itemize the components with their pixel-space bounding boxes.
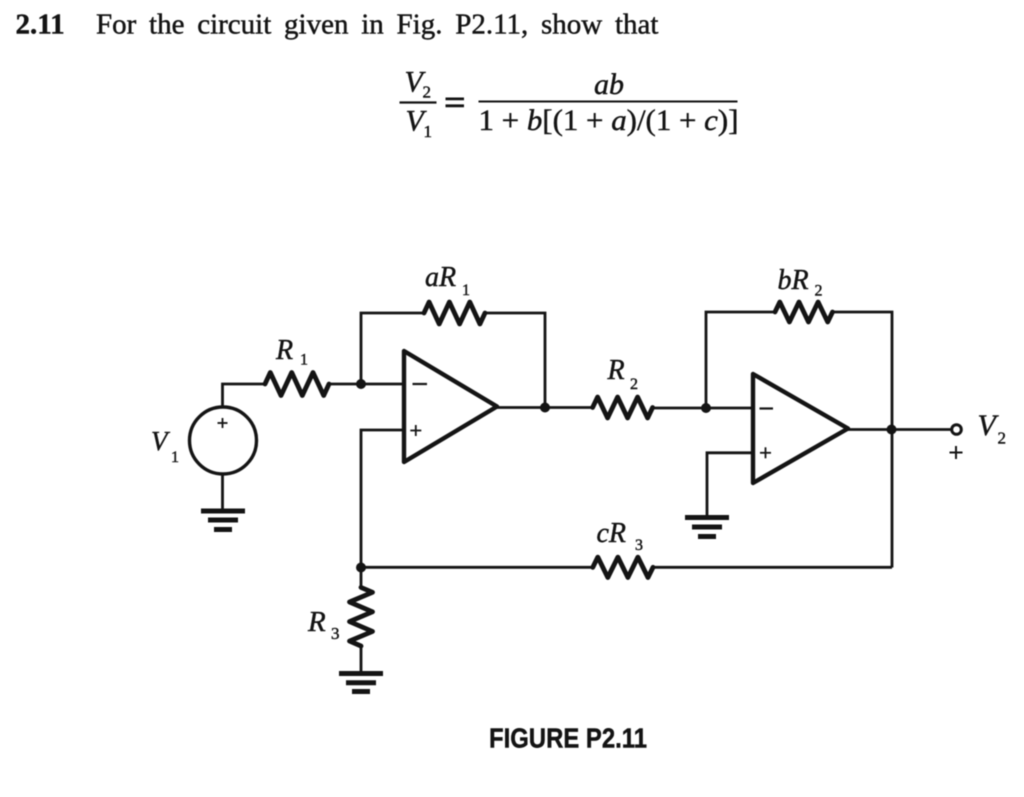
wire U1 output to R2 bbox=[496, 406, 593, 409]
svg-text:ab: ab bbox=[594, 68, 624, 101]
wire feedback 2 up and across bbox=[706, 312, 775, 408]
wire R1 to op-amp 1 inverting input bbox=[329, 383, 404, 386]
problem statement heading bbox=[16, 8, 659, 40]
ground at U2 noninverting input bbox=[685, 518, 729, 537]
label R2 bbox=[607, 355, 639, 393]
wire V1 bottom to ground bbox=[221, 474, 224, 511]
node B (junction of R3, cR3, U1 + input) bbox=[356, 563, 366, 573]
svg-text:For the circuit given in Fig.: For the circuit given in Fig. P2.11, sho… bbox=[96, 8, 658, 40]
wire feedback 1 up and across bbox=[361, 313, 424, 384]
node U1 output bbox=[540, 403, 550, 413]
op-amp U2 bbox=[753, 374, 848, 483]
svg-text:R: R bbox=[275, 335, 293, 366]
wire bottom rail right bbox=[653, 566, 892, 569]
ground under V1 bbox=[201, 511, 245, 530]
resistor aR1 bbox=[424, 302, 485, 324]
svg-text:bR: bR bbox=[778, 265, 809, 296]
op-amp U1 bbox=[404, 351, 497, 462]
svg-text:R: R bbox=[307, 606, 326, 638]
node C (inverting input node of U2) bbox=[701, 403, 711, 413]
wire bR2 down right side to bottom rail bbox=[833, 312, 893, 568]
label V1 bbox=[151, 426, 179, 466]
wire R2 to op-amp 2 inverting input bbox=[653, 407, 753, 410]
wire U1 noninverting input down to node B bbox=[361, 430, 404, 568]
label V2 output bbox=[978, 409, 1007, 448]
wire aR1 down to output node bbox=[485, 313, 545, 408]
equation RHS fraction ab over 1+b[(1+a)/(1+c)] bbox=[479, 68, 739, 137]
svg-text:aR: aR bbox=[425, 262, 456, 293]
svg-text:1: 1 bbox=[171, 449, 179, 466]
resistor R3 bbox=[350, 587, 373, 646]
resistor R1 bbox=[265, 373, 329, 396]
ground under R3 bbox=[339, 674, 383, 692]
svg-text:2: 2 bbox=[423, 83, 432, 102]
svg-text:3: 3 bbox=[635, 537, 643, 554]
wire V1 top to R1 bbox=[223, 384, 266, 408]
label R3 bbox=[307, 606, 340, 643]
resistor cR3 bbox=[593, 557, 653, 577]
resistor bR2 bbox=[775, 302, 833, 322]
svg-text:1 + b[(1 + a)/(1 + c)]: 1 + b[(1 + a)/(1 + c)] bbox=[479, 104, 739, 137]
output terminal circle bbox=[952, 425, 962, 435]
svg-text:2.11: 2.11 bbox=[16, 8, 65, 40]
wire U2 noninverting input to ground bbox=[707, 453, 753, 517]
wire U2 output to terminal bbox=[847, 428, 951, 431]
equals sign bbox=[446, 99, 465, 106]
wire bottom rail left bbox=[361, 566, 593, 569]
svg-text:2: 2 bbox=[815, 283, 823, 300]
label cR3 bbox=[597, 518, 644, 554]
svg-text:3: 3 bbox=[331, 624, 340, 643]
svg-text:R: R bbox=[607, 355, 625, 386]
node A (inverting input node of U1) bbox=[356, 379, 366, 389]
plus sign under terminal bbox=[950, 446, 963, 459]
equation LHS fraction V2/V1 bbox=[400, 66, 437, 142]
label aR1 bbox=[425, 262, 470, 299]
resistor R2 bbox=[593, 397, 653, 418]
svg-text:1: 1 bbox=[300, 352, 308, 369]
label R1 bbox=[275, 335, 308, 369]
svg-text:1: 1 bbox=[462, 282, 470, 299]
svg-text:2: 2 bbox=[998, 429, 1007, 448]
node U2 output bbox=[887, 425, 897, 435]
wire node B down to R3 bbox=[360, 568, 363, 588]
wire R3 to ground bbox=[360, 646, 363, 672]
svg-text:cR: cR bbox=[597, 518, 627, 549]
voltage source V1 bbox=[190, 407, 257, 474]
svg-text:FIGURE P2.11: FIGURE P2.11 bbox=[489, 723, 647, 754]
svg-text:1: 1 bbox=[424, 122, 433, 141]
svg-text:2: 2 bbox=[630, 376, 638, 393]
label bR2 bbox=[778, 265, 823, 300]
